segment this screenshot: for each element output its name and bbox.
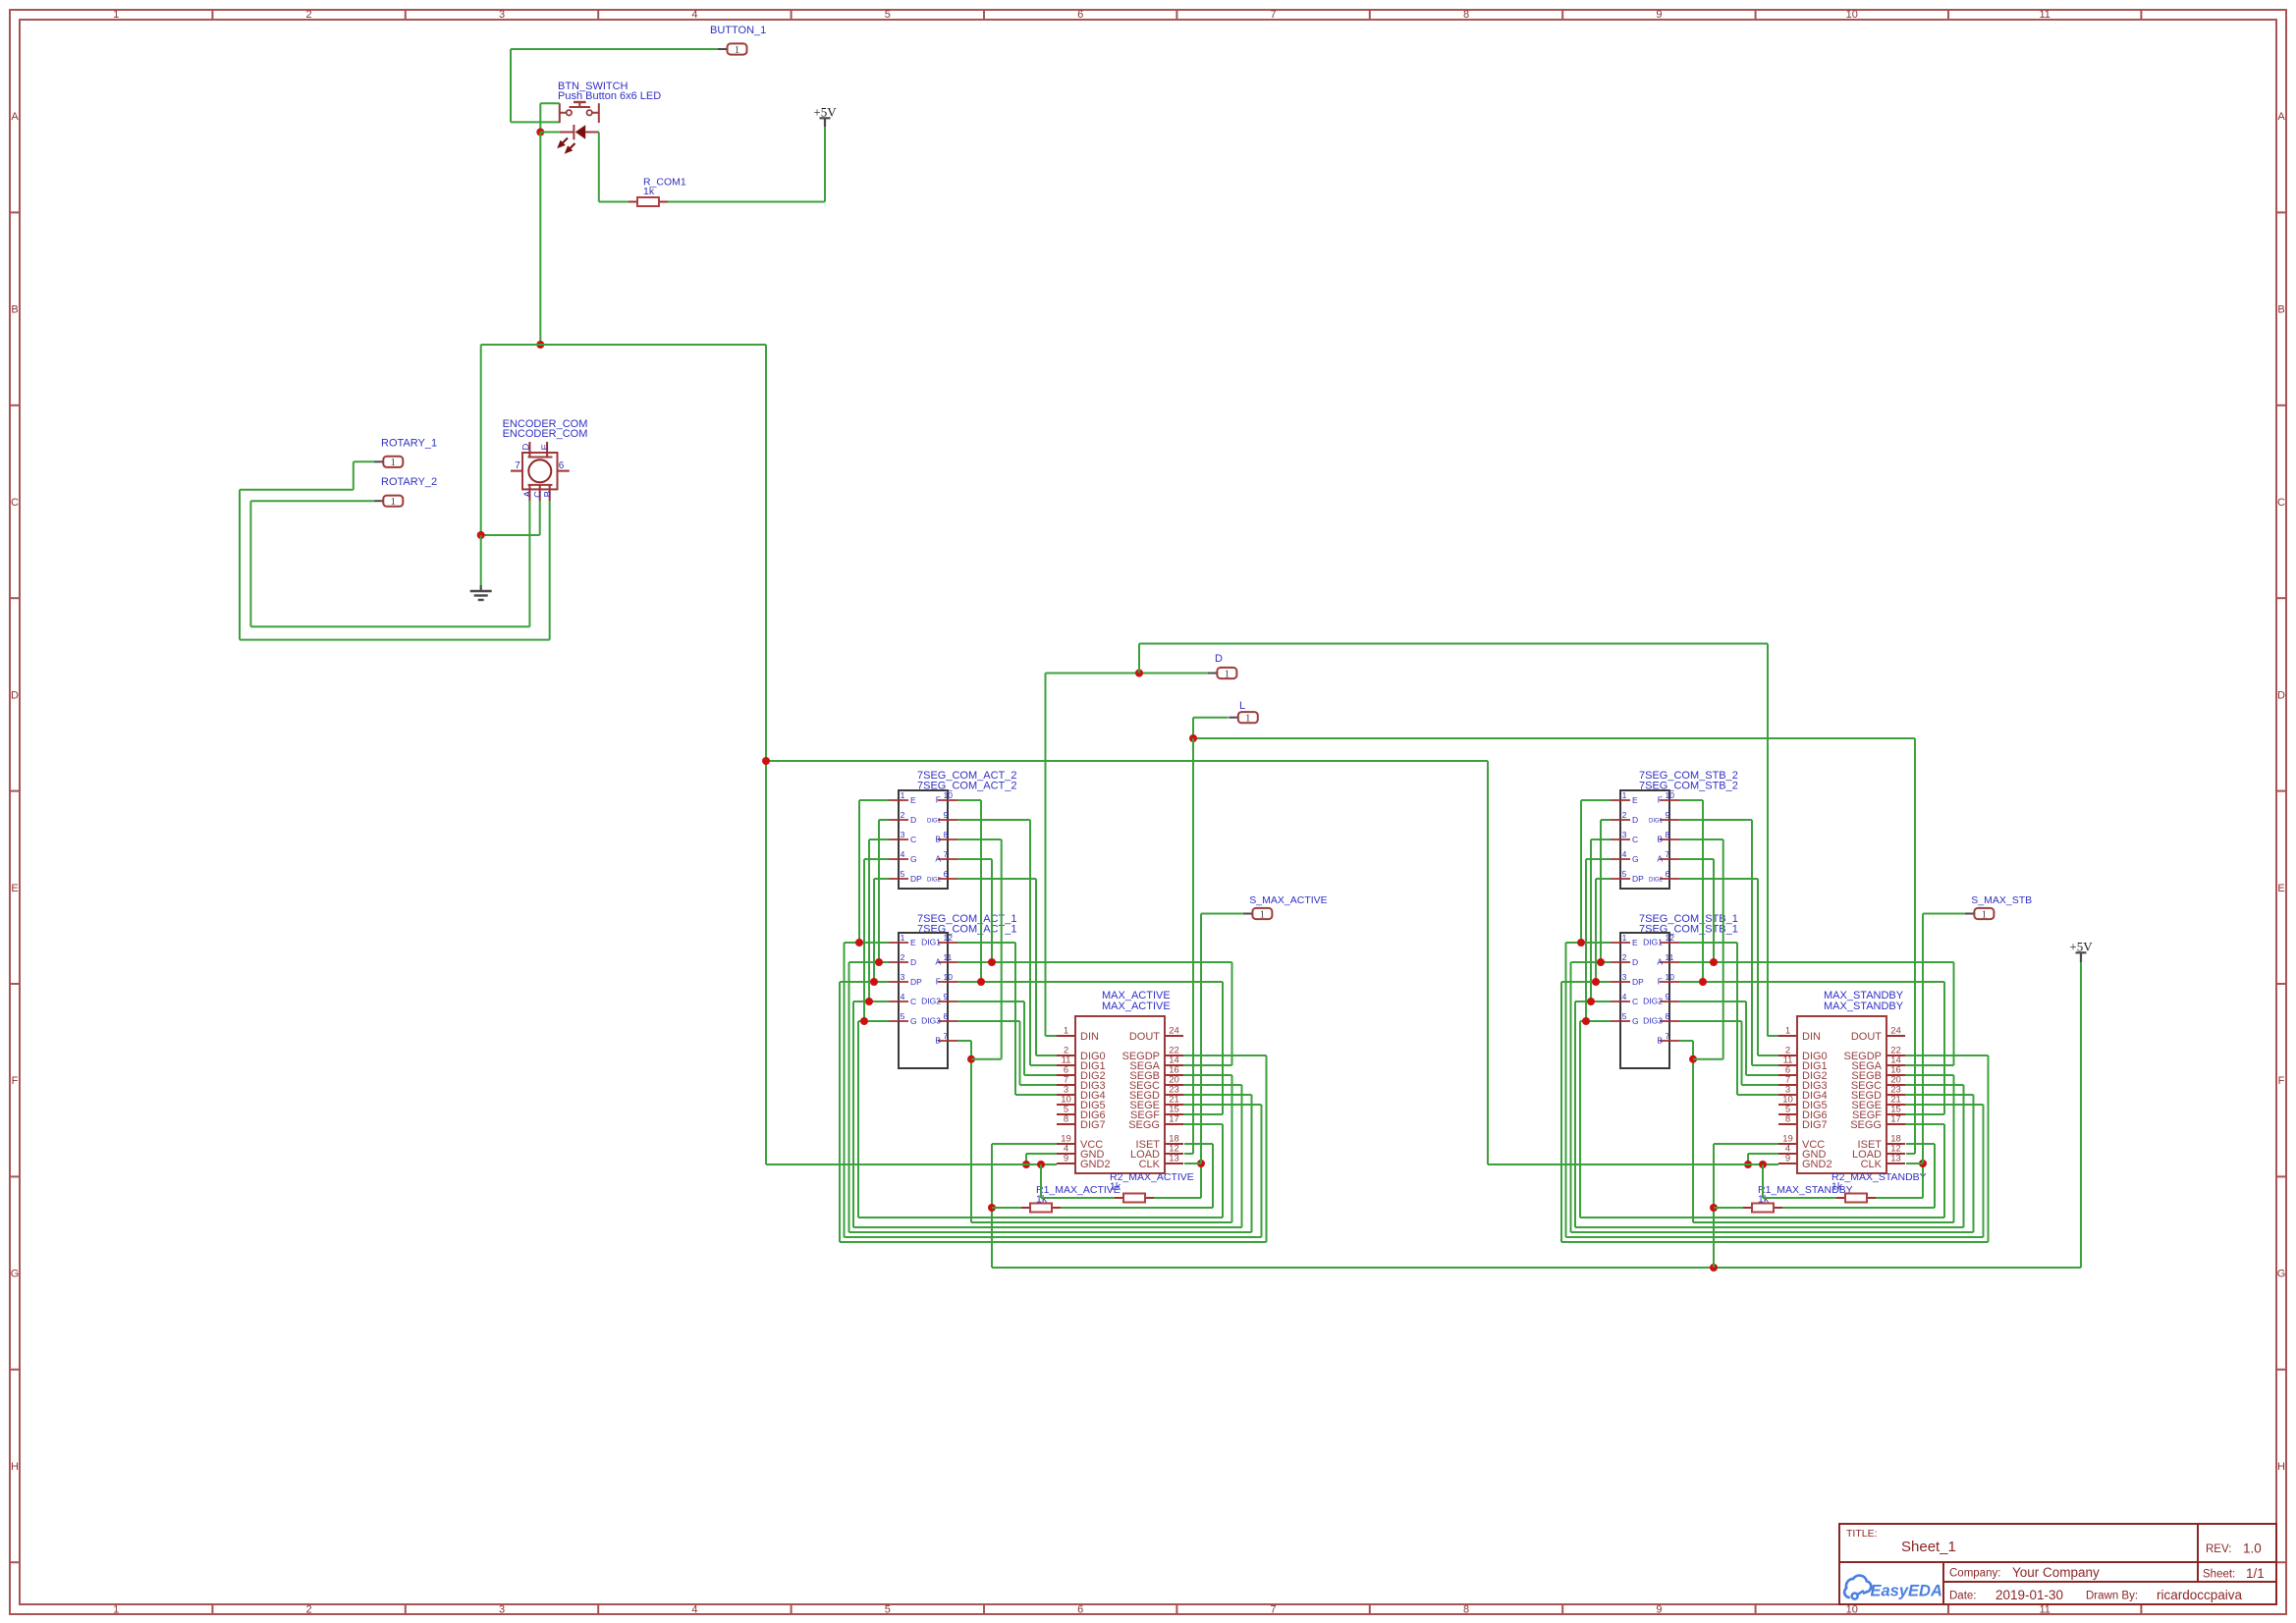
- svg-text:G: G: [1632, 1016, 1639, 1026]
- svg-text:9: 9: [1666, 992, 1670, 1001]
- svg-text:DIG2: DIG2: [1643, 997, 1663, 1006]
- svg-text:1: 1: [1982, 909, 1987, 920]
- svg-text:E: E: [910, 938, 916, 947]
- svg-text:A: A: [1657, 957, 1663, 967]
- svg-text:C: C: [910, 835, 916, 844]
- svg-text:ENCODER_COM: ENCODER_COM: [503, 428, 588, 440]
- svg-text:1: 1: [901, 790, 905, 800]
- svg-text:12: 12: [1666, 933, 1675, 943]
- svg-text:F: F: [2278, 1075, 2285, 1087]
- svg-text:10: 10: [1666, 790, 1675, 800]
- svg-text:1/1: 1/1: [2246, 1566, 2265, 1581]
- svg-text:Company:: Company:: [1949, 1568, 2000, 1580]
- svg-text:R2_MAX_ACTIVE: R2_MAX_ACTIVE: [1110, 1171, 1194, 1183]
- svg-text:DIG7: DIG7: [1802, 1119, 1828, 1131]
- svg-text:MAX_STANDBY: MAX_STANDBY: [1824, 1001, 1904, 1012]
- svg-text:S_MAX_ACTIVE: S_MAX_ACTIVE: [1249, 894, 1327, 906]
- svg-text:9: 9: [1656, 1604, 1662, 1616]
- svg-text:10: 10: [944, 790, 954, 800]
- svg-text:E: E: [540, 444, 551, 450]
- svg-text:DIG2: DIG2: [921, 997, 941, 1006]
- svg-text:1: 1: [1064, 1026, 1068, 1037]
- svg-text:DIG1: DIG1: [1649, 819, 1664, 825]
- svg-text:D: D: [2277, 689, 2285, 701]
- svg-text:10: 10: [1846, 9, 1858, 21]
- svg-text:F: F: [1658, 977, 1663, 987]
- svg-text:F: F: [12, 1075, 19, 1087]
- svg-text:10: 10: [1666, 972, 1675, 982]
- svg-text:1k: 1k: [1831, 1181, 1843, 1193]
- svg-text:7: 7: [1271, 9, 1277, 21]
- svg-text:B: B: [2277, 304, 2284, 316]
- svg-text:2: 2: [306, 9, 312, 21]
- svg-text:D: D: [11, 689, 19, 701]
- svg-text:Date:: Date:: [1949, 1591, 1977, 1602]
- svg-text:Push Button 6x6 LED: Push Button 6x6 LED: [558, 90, 661, 102]
- svg-text:A: A: [522, 490, 533, 497]
- svg-text:9: 9: [1785, 1154, 1790, 1164]
- svg-text:DIG1: DIG1: [921, 938, 941, 947]
- svg-text:R1_MAX_ACTIVE: R1_MAX_ACTIVE: [1036, 1184, 1121, 1196]
- svg-text:2: 2: [1622, 952, 1627, 962]
- svg-text:1: 1: [1260, 909, 1265, 920]
- svg-text:2: 2: [1622, 810, 1627, 820]
- svg-text:DIG7: DIG7: [1080, 1119, 1106, 1131]
- svg-text:DP: DP: [910, 977, 922, 987]
- svg-text:11: 11: [944, 952, 953, 962]
- svg-text:F: F: [936, 977, 941, 987]
- svg-text:B: B: [935, 1036, 941, 1046]
- svg-text:DP: DP: [910, 874, 922, 884]
- svg-text:10: 10: [944, 972, 954, 982]
- svg-text:1: 1: [113, 9, 119, 21]
- svg-text:G: G: [910, 1016, 917, 1026]
- svg-text:6: 6: [944, 869, 949, 879]
- svg-text:SEGG: SEGG: [1128, 1119, 1160, 1131]
- svg-text:ROTARY_1: ROTARY_1: [381, 437, 437, 449]
- svg-text:1: 1: [1622, 933, 1627, 943]
- svg-text:A: A: [2277, 111, 2285, 123]
- svg-text:B: B: [543, 491, 554, 497]
- svg-text:C: C: [1632, 835, 1638, 844]
- svg-text:9: 9: [1064, 1154, 1068, 1164]
- svg-text:1: 1: [1622, 790, 1627, 800]
- svg-text:24: 24: [1169, 1026, 1179, 1037]
- svg-text:ROTARY_2: ROTARY_2: [381, 476, 437, 488]
- svg-text:12: 12: [944, 933, 954, 943]
- svg-text:9: 9: [944, 810, 949, 820]
- svg-text:5: 5: [901, 1011, 905, 1021]
- svg-text:A: A: [1657, 854, 1663, 864]
- svg-text:1k: 1k: [1110, 1181, 1121, 1193]
- svg-text:Sheet_1: Sheet_1: [1901, 1539, 1956, 1555]
- svg-text:E: E: [910, 795, 916, 805]
- svg-text:7: 7: [1666, 1031, 1670, 1041]
- svg-text:C: C: [1632, 997, 1638, 1006]
- svg-text:3: 3: [499, 9, 505, 21]
- svg-text:CLK: CLK: [1861, 1159, 1883, 1170]
- svg-text:B: B: [1657, 835, 1663, 844]
- svg-text:6: 6: [559, 460, 565, 471]
- svg-text:1.0: 1.0: [2243, 1542, 2262, 1556]
- svg-text:S_MAX_STB: S_MAX_STB: [1971, 894, 2032, 906]
- svg-text:E: E: [1632, 795, 1638, 805]
- svg-text:13: 13: [1890, 1154, 1901, 1164]
- svg-text:1: 1: [391, 458, 396, 468]
- svg-text:6: 6: [1077, 9, 1083, 21]
- svg-text:D: D: [1632, 957, 1638, 967]
- svg-text:GND2: GND2: [1080, 1159, 1111, 1170]
- svg-text:F: F: [936, 795, 941, 805]
- svg-text:C: C: [2277, 497, 2285, 509]
- svg-text:11: 11: [2039, 1604, 2050, 1616]
- svg-text:7: 7: [944, 1031, 949, 1041]
- svg-text:1k: 1k: [643, 186, 655, 197]
- svg-text:1: 1: [113, 1604, 119, 1616]
- svg-text:D: D: [1632, 815, 1638, 825]
- svg-text:3: 3: [499, 1604, 505, 1616]
- svg-text:DIG3: DIG3: [1643, 1016, 1663, 1026]
- svg-text:DIG3: DIG3: [921, 1016, 941, 1026]
- svg-text:E: E: [11, 883, 18, 894]
- svg-text:6: 6: [1666, 869, 1670, 879]
- svg-text:DIG1: DIG1: [927, 819, 942, 825]
- svg-text:DOUT: DOUT: [1851, 1031, 1882, 1043]
- svg-text:9: 9: [1656, 9, 1662, 21]
- svg-text:11: 11: [2039, 9, 2050, 21]
- svg-text:C: C: [11, 497, 19, 509]
- svg-text:8: 8: [1064, 1114, 1068, 1125]
- svg-text:D: D: [521, 444, 532, 451]
- svg-text:TITLE:: TITLE:: [1846, 1528, 1878, 1540]
- svg-text:D: D: [1215, 653, 1223, 665]
- svg-text:8: 8: [1666, 1011, 1670, 1021]
- svg-text:DIN: DIN: [1802, 1031, 1821, 1043]
- svg-text:REV:: REV:: [2206, 1543, 2231, 1555]
- svg-text:8: 8: [1666, 830, 1670, 839]
- svg-text:2: 2: [901, 952, 905, 962]
- svg-text:B: B: [11, 304, 18, 316]
- svg-text:Drawn By:: Drawn By:: [2086, 1591, 2138, 1602]
- svg-text:17: 17: [1890, 1114, 1901, 1125]
- svg-text:2: 2: [901, 810, 905, 820]
- svg-text:G: G: [1632, 854, 1639, 864]
- svg-text:E: E: [1632, 938, 1638, 947]
- svg-text:1: 1: [391, 497, 396, 508]
- svg-text:6: 6: [1077, 1604, 1083, 1616]
- svg-text:3: 3: [1622, 830, 1627, 839]
- svg-text:F: F: [1658, 795, 1663, 805]
- svg-text:G: G: [910, 854, 917, 864]
- svg-text:Sheet:: Sheet:: [2203, 1569, 2235, 1581]
- svg-text:4: 4: [691, 1604, 697, 1616]
- svg-text:8: 8: [1463, 9, 1469, 21]
- svg-text:A: A: [935, 854, 941, 864]
- svg-text:7: 7: [515, 460, 520, 471]
- svg-text:11: 11: [1666, 952, 1674, 962]
- svg-text:8: 8: [1785, 1114, 1790, 1125]
- svg-text:4: 4: [901, 992, 905, 1001]
- svg-text:2: 2: [306, 1604, 312, 1616]
- svg-text:ricardoccpaiva: ricardoccpaiva: [2157, 1588, 2243, 1602]
- svg-text:Your Company: Your Company: [2012, 1565, 2100, 1580]
- svg-text:MAX_ACTIVE: MAX_ACTIVE: [1102, 1001, 1171, 1012]
- svg-text:H: H: [2277, 1461, 2285, 1473]
- svg-text:A: A: [935, 957, 941, 967]
- svg-text:H: H: [11, 1461, 19, 1473]
- svg-text:DIG2: DIG2: [927, 878, 942, 884]
- svg-text:1: 1: [1785, 1026, 1790, 1037]
- svg-text:DIG1: DIG1: [1643, 938, 1663, 947]
- svg-text:8: 8: [944, 1011, 949, 1021]
- svg-text:1: 1: [901, 933, 905, 943]
- svg-text:DP: DP: [1632, 874, 1644, 884]
- svg-text:3: 3: [901, 972, 905, 982]
- svg-text:GND2: GND2: [1802, 1159, 1832, 1170]
- svg-text:4: 4: [1622, 849, 1627, 859]
- svg-text:10: 10: [1846, 1604, 1858, 1616]
- svg-text:G: G: [11, 1269, 20, 1280]
- svg-text:4: 4: [1622, 992, 1627, 1001]
- svg-text:9: 9: [944, 992, 949, 1001]
- svg-text:DIG2: DIG2: [1649, 878, 1664, 884]
- svg-text:9: 9: [1666, 810, 1670, 820]
- svg-text:7: 7: [944, 849, 949, 859]
- svg-text:DOUT: DOUT: [1129, 1031, 1160, 1043]
- svg-text:5: 5: [901, 869, 905, 879]
- svg-text:4: 4: [901, 849, 905, 859]
- svg-text:5: 5: [885, 1604, 891, 1616]
- svg-text:DP: DP: [1632, 977, 1644, 987]
- svg-text:B: B: [935, 835, 941, 844]
- svg-text:G: G: [2277, 1269, 2286, 1280]
- svg-text:CLK: CLK: [1139, 1159, 1161, 1170]
- svg-text:DIN: DIN: [1080, 1031, 1099, 1043]
- svg-text:A: A: [11, 111, 19, 123]
- svg-text:8: 8: [1463, 1604, 1469, 1616]
- svg-text:2019-01-30: 2019-01-30: [1995, 1588, 2063, 1602]
- svg-text:13: 13: [1169, 1154, 1179, 1164]
- svg-text:D: D: [910, 957, 916, 967]
- svg-text:3: 3: [1622, 972, 1627, 982]
- svg-text:17: 17: [1169, 1114, 1179, 1125]
- svg-text:EasyEDA: EasyEDA: [1871, 1583, 1942, 1600]
- svg-text:C: C: [910, 997, 916, 1006]
- svg-text:1: 1: [1225, 669, 1230, 679]
- svg-text:SEGG: SEGG: [1850, 1119, 1882, 1131]
- svg-text:D: D: [910, 815, 916, 825]
- svg-text:L: L: [1239, 700, 1245, 712]
- svg-text:E: E: [2277, 883, 2284, 894]
- svg-text:R2_MAX_STANDBY: R2_MAX_STANDBY: [1831, 1171, 1927, 1183]
- svg-text:7: 7: [1271, 1604, 1277, 1616]
- svg-text:5: 5: [1622, 1011, 1627, 1021]
- svg-text:24: 24: [1890, 1026, 1901, 1037]
- svg-text:B: B: [1657, 1036, 1663, 1046]
- svg-text:BUTTON_1: BUTTON_1: [710, 25, 766, 36]
- svg-text:3: 3: [901, 830, 905, 839]
- svg-text:7: 7: [1666, 849, 1670, 859]
- svg-text:4: 4: [691, 9, 697, 21]
- svg-text:1: 1: [735, 45, 739, 56]
- svg-text:5: 5: [1622, 869, 1627, 879]
- svg-text:5: 5: [885, 9, 891, 21]
- svg-text:1: 1: [1245, 714, 1250, 725]
- svg-text:8: 8: [944, 830, 949, 839]
